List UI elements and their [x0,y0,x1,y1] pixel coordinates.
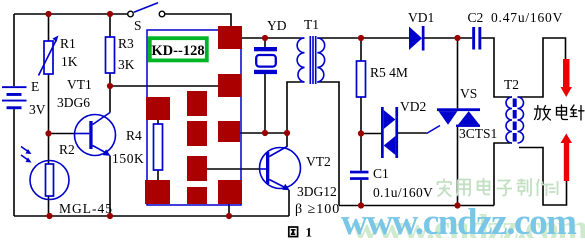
wire YD top stub [264,38,266,47]
node VT2 collector junction [284,130,290,136]
svg-text:C1: C1 [373,166,389,181]
node R2 bottom junction [46,213,52,219]
wire bottom rail [14,215,289,217]
node C1 bottom junction [358,202,364,208]
wire T2 secondary bottom to lower needle [519,148,567,206]
node R5 top junction [358,35,364,41]
resistor R4 [154,124,163,170]
node R3/VT1 collector junction [107,83,113,89]
wire IC pin3 to node row [240,132,287,134]
resistor R1 (variable) [39,36,59,76]
capacitor C2 [472,27,481,50]
transistor VT1 [75,113,116,156]
node VS cathode junction [454,202,460,208]
wire R5 bottom to node [360,97,362,134]
capacitor C1 [350,171,369,180]
diac VD2 [381,107,398,158]
discharge needle top [561,59,573,97]
node R3 top junction [107,11,113,17]
wire T1 secondary top to VD1 [317,37,409,39]
IC pad right 1 [218,26,242,49]
svg-text:R4: R4 [126,128,142,143]
wire IC pin to VT2 base [207,168,260,170]
wire VD1 to VS node to C2 [424,37,472,39]
wire R3 top [109,14,111,37]
svg-text:3CTS1: 3CTS1 [459,126,497,141]
svg-text:T2: T2 [504,77,519,92]
wire VT1 emitter vertical [109,156,111,217]
svg-text:β ≥100: β ≥100 [295,202,340,217]
svg-text:VT1: VT1 [67,77,92,92]
svg-text:1: 1 [306,225,313,239]
wire R5 top stub [360,38,362,61]
node R5/C1/VD2 junction [358,130,364,136]
IC pad left 2 [145,180,170,204]
svg-text:3V: 3V [29,102,46,117]
wire T1 secondary bottom down [317,82,339,206]
svg-text:KD--128: KD--128 [151,43,204,59]
wire R1 bottom to base node [48,74,50,134]
svg-text:MGL-45: MGL-45 [59,201,113,216]
IC pad right 4 [218,180,242,204]
svg-text:VT2: VT2 [306,154,331,169]
wire IC pin1 to YD and T1 [242,37,300,39]
wire YD bottom stub [264,74,266,133]
wire switch to IC pin [165,14,231,26]
node VT1 emitter junction [107,213,113,219]
transistor VT2 [260,147,301,191]
label 放电针 (hand drawn) [535,105,585,120]
wire top rail left [14,13,128,15]
svg-text:VS: VS [460,86,477,101]
thyristor VS [427,108,481,133]
svg-text:VD2: VD2 [400,99,426,114]
IC pad mid 1 [187,91,207,116]
svg-text:YD: YD [267,18,287,33]
node IC ground junction [226,213,232,219]
piezo sounder YD [254,47,277,74]
wire IC pin4 to bottom rail [228,204,230,216]
svg-text:1K: 1K [61,54,78,69]
svg-text:R5 4M: R5 4M [370,65,408,80]
wire left frame [13,14,15,86]
svg-text:T1: T1 [304,17,319,32]
wire T1 primary bottom to VT2 collector [287,82,300,147]
wire VT2 emitter vertical [288,190,290,216]
svg-text:0.1u/160V: 0.1u/160V [373,185,433,200]
svg-text:S: S [134,18,142,33]
svg-text:E: E [31,79,39,94]
resistor R3 [106,37,115,73]
node YD bottom junction [262,130,268,136]
KD--128 green label box [150,38,207,60]
transformer T2 [506,97,524,143]
wire R3 bottom [109,73,111,86]
wire R2 top [48,134,50,165]
IC pad mid 3 [187,156,207,181]
svg-text:R1: R1 [60,36,76,51]
wire T2 primary bottom [494,143,512,206]
svg-text:3DG6: 3DG6 [57,95,90,110]
IC pad right 2 [218,74,241,97]
wire base node to VT1 [49,133,76,135]
wire T2 secondary top to needle [518,38,566,97]
wire VS cathode vertical [457,127,459,206]
watermark 实用电子制作 (hand drawn pale green) [437,178,558,197]
wire R1 top [48,14,50,41]
svg-text:C2: C2 [468,10,484,25]
wire node to IC pin2 [110,85,219,87]
node VD1/VS junction [454,35,460,41]
wire C2 to T2 primary top [481,38,512,97]
svg-text:R3: R3 [118,36,134,51]
transformer T1 [297,36,324,84]
IC KD-128 body [147,30,241,205]
discharge needle bottom [561,134,573,182]
svg-text:0.47u/160V: 0.47u/160V [491,10,563,25]
wire VT1 collector vertical [109,86,111,113]
diode VD1 [409,26,425,51]
IC pad mid 2 [187,121,207,146]
node R1/R2/VT1 base junction [45,130,51,136]
photoresistor R2 [21,147,69,200]
wire C1 bottom stub [360,180,362,206]
IC pad left 1 [146,97,170,120]
svg-text:150K: 150K [112,151,144,166]
svg-text:www.cndzz.com: www.cndzz.com [341,202,577,238]
IC pad right 3 [218,121,240,142]
node YD top junction [262,35,268,41]
svg-text:VD1: VD1 [408,10,434,25]
svg-text:3K: 3K [118,57,135,72]
battery E [2,86,27,109]
wire C1 top stub [360,134,362,171]
wire R2 bottom [48,196,50,216]
IC pad mid 4 [187,187,207,204]
svg-text:R2: R2 [59,142,75,157]
node R1 top junction [45,11,51,17]
switch S [128,3,165,17]
wire VS anode vertical [457,38,459,108]
caption 图 1 [289,225,312,240]
wire right bottom rail [339,205,494,207]
resistor R5 [357,61,366,97]
wire battery to bottom rail [13,109,15,216]
wire R4 stubs [157,118,159,181]
wire node to diac VD2 [361,133,381,135]
svg-text:3DG12: 3DG12 [297,184,337,199]
wire diac to VS gate [398,132,427,134]
